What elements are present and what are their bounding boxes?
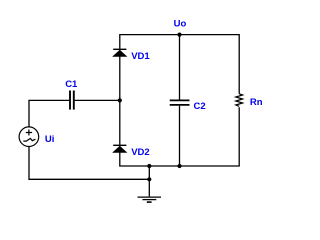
capacitor C1 [65, 79, 78, 110]
svg-text:C1: C1 [65, 79, 78, 90]
svg-text:C2: C2 [194, 101, 206, 112]
svg-text:VD1: VD1 [131, 51, 150, 62]
wire top rail Uo [120, 35, 239, 94]
junction C2 bottom node [177, 164, 181, 168]
wire C2 column bottom [179, 106, 181, 166]
capacitor C2 [170, 100, 206, 112]
svg-text:Uo: Uo [174, 18, 187, 29]
wire bottom rail [120, 107, 239, 166]
node Uo [174, 18, 187, 36]
wire C2 column top [179, 35, 181, 100]
junction source-return node [147, 177, 151, 181]
wire C1 left [29, 100, 69, 127]
svg-text:Ui: Ui [45, 134, 55, 145]
ground [138, 197, 162, 202]
svg-text:Rn: Rn [250, 97, 263, 108]
voltage source Ui [19, 127, 54, 147]
svg-text:VD2: VD2 [131, 147, 149, 158]
wire C1 right [75, 99, 120, 101]
diode VD1 [113, 49, 150, 62]
resistor Rn [236, 94, 263, 108]
diode VD2 [113, 145, 150, 158]
junction ground-rail node [147, 164, 151, 168]
wire ground stem [148, 166, 150, 196]
wire source bottom return [29, 147, 149, 180]
wire diode column middle [119, 56, 121, 144]
junction C1-diode node [118, 98, 122, 102]
